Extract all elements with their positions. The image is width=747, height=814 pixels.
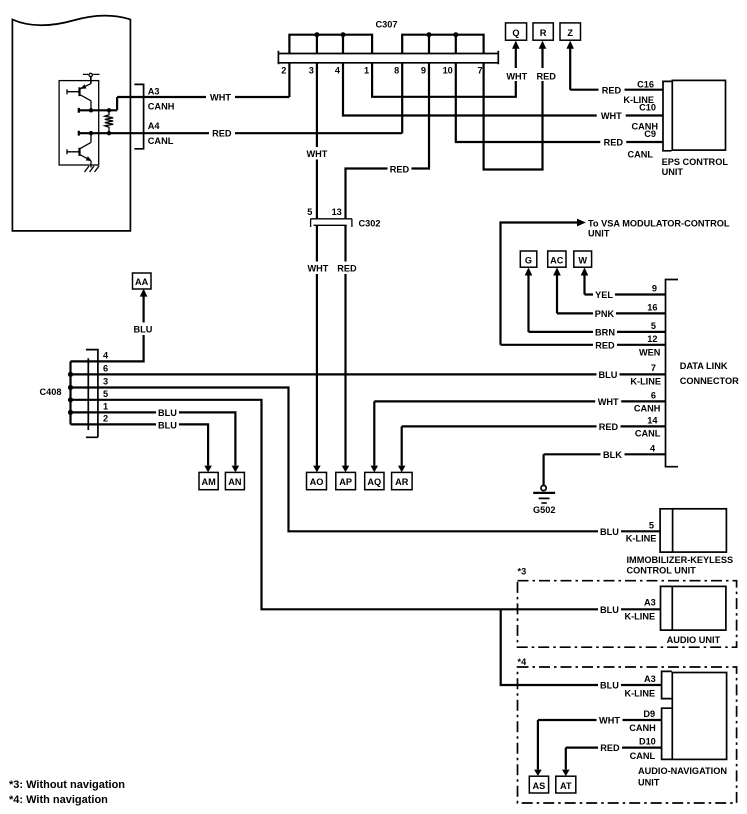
svg-text:5: 5 [649,520,654,530]
svg-text:RED: RED [604,138,624,148]
svg-text:5: 5 [307,207,312,217]
svg-text:BLU: BLU [134,325,153,335]
arrow to AQ [371,466,379,473]
label WHT CANH [595,395,621,407]
wire WHT nav CANH to AS [538,720,662,770]
pin numbers C408 [103,350,109,423]
connector C408 bar [86,349,98,438]
svg-text:C408: C408 [40,387,62,397]
svg-text:WHT: WHT [601,111,622,121]
label RED on EPS K-LINE wire [599,84,625,97]
label BLU nav K-LINE wire [598,679,621,691]
svg-text:*3: *3 [518,567,527,577]
label RED on A4 wire [209,127,235,139]
connector bracket audio [661,586,672,630]
arrow to W [581,267,589,275]
connector G box [520,251,537,267]
svg-text:BLU: BLU [599,370,618,380]
svg-text:2: 2 [281,66,286,76]
svg-text:A4: A4 [148,121,161,131]
svg-text:DATA LINK: DATA LINK [680,361,728,371]
svg-text:5: 5 [103,389,108,399]
svg-text:UNIT: UNIT [662,167,684,177]
connector AT box [556,776,576,793]
node dots [89,108,111,135]
svg-text:9: 9 [421,66,426,76]
arrow to R [539,41,547,49]
svg-text:BLU: BLU [600,527,619,537]
svg-text:C9: C9 [644,129,656,139]
svg-text:BLU: BLU [600,681,619,691]
label WHT under Q [503,68,529,82]
immobilizer-keyless control unit box [673,509,727,552]
junction dots bridge left [314,32,345,37]
svg-text:RED: RED [600,743,620,753]
svg-text:1: 1 [103,401,108,411]
svg-text:AS: AS [533,781,546,791]
label BRN [593,326,617,338]
wire C307 pin3 WHT vertical [316,63,318,466]
wire PNK DLC pin16 to AC [557,275,666,313]
svg-text:AUDIO-NAVIGATION: AUDIO-NAVIGATION [638,766,727,776]
with-navigation dashed box [518,667,737,803]
svg-text:Z: Z [567,28,573,38]
label BLU on AA wire [132,323,155,336]
svg-text:CANH: CANH [634,403,661,413]
svg-text:RED: RED [536,72,556,82]
svg-text:K-LINE: K-LINE [630,377,661,387]
connector AC box [548,251,566,267]
arrow to AR [398,466,406,473]
svg-text:8: 8 [394,66,399,76]
svg-text:A3: A3 [148,87,160,97]
label RED on EPS CANL wire [600,136,626,149]
wire A3 WHT [117,96,289,98]
wire C307 pin8 [401,63,403,133]
arrow to AT [562,770,570,776]
arrow to AP [342,466,350,473]
svg-text:G502: G502 [533,505,555,515]
svg-text:PNK: PNK [595,309,615,319]
svg-text:AN: AN [228,477,242,487]
wire Z to EPS K-LINE [570,48,663,90]
wire branch to audio-navigation K-LINE [501,609,662,685]
connector bracket nav D9-D10 [662,708,672,759]
EPS control unit box [672,80,725,150]
connector W box [574,251,592,267]
svg-text:C10: C10 [639,103,656,113]
svg-text:AQ: AQ [367,477,381,487]
connector bracket immobilizer [660,509,672,552]
connector C408 inner line [87,358,89,430]
label BLU audio wire [598,603,621,615]
svg-text:C307: C307 [376,20,398,30]
wire BLK DLC pin4 to ground [544,454,666,485]
arrow to Z [566,41,574,49]
audio unit box [672,586,726,630]
resistor [105,110,113,133]
wire RED nav CANL to AT [566,748,662,770]
connector AA box [133,273,152,289]
svg-text:A3: A3 [644,597,656,607]
svg-text:*3: Without navigation: *3: Without navigation [9,779,125,791]
svg-text:CONNECTOR: CONNECTOR [680,376,739,386]
audio-navigation unit box [672,673,726,760]
label BLU on DLC K-LINE wire [597,368,620,380]
svg-text:AM: AM [201,477,216,487]
label RED nav [598,742,622,754]
label WHT nav [597,714,623,726]
svg-text:14: 14 [647,415,658,425]
wire C408 pin1 BLU to AN [71,412,236,465]
connector bracket nav A3 [662,671,672,698]
CAN driver IC box [59,81,99,165]
svg-text:*4: *4 [518,657,528,667]
ground G502 [533,485,555,515]
svg-text:*4: With navigation: *4: With navigation [9,794,108,806]
label YEL [593,289,615,301]
supply symbol [83,73,99,83]
svg-text:10: 10 [443,66,453,76]
connector AS box [529,776,548,793]
svg-text:CANH: CANH [148,102,175,112]
svg-text:BLK: BLK [603,450,622,460]
connector bracket EPS [663,81,672,150]
svg-text:EPS CONTROL: EPS CONTROL [662,157,729,167]
svg-text:AP: AP [339,477,352,487]
svg-text:AA: AA [135,277,149,287]
svg-text:RED: RED [212,129,232,139]
svg-text:WEN: WEN [639,347,661,357]
label BLU on pin2 wire [156,418,179,431]
connector C302 [311,219,352,227]
svg-text:WHT: WHT [599,716,620,726]
arrow to AS [534,770,542,776]
label WHT on pin3 wire [304,147,330,160]
wire to VSA modulator-control unit [501,223,578,345]
svg-text:CANL: CANL [627,150,653,160]
svg-text:BLU: BLU [158,420,177,430]
svg-text:CANL: CANL [148,136,174,146]
wire C408 pin3 BLU to immobilizer [71,388,661,532]
svg-text:D10: D10 [639,737,656,747]
svg-text:RED: RED [602,85,622,95]
control module box [12,16,130,231]
connector AM box [199,472,218,489]
svg-text:Q: Q [512,28,519,38]
wire C307 pin4 to EPS CANH [343,63,663,116]
svg-text:7: 7 [651,363,656,373]
svg-text:G: G [525,255,532,265]
wire C408 pin5 BLU to audio [71,400,661,610]
svg-text:WHT: WHT [306,149,327,159]
svg-text:12: 12 [647,334,657,344]
wire RED DLC pin12 WEN [501,344,666,346]
wire C307 pin10 to EPS CANL [456,63,663,142]
connector AQ box [365,472,384,489]
svg-text:WHT: WHT [506,72,527,82]
label BLU immobilizer wire [598,525,621,537]
junction dots C408 [68,372,73,415]
svg-text:WHT: WHT [598,397,619,407]
junction dots bridge right [427,32,459,37]
wire RED DLC pin14 CANL to AR [402,426,666,465]
connector R box [533,23,553,40]
label BLU on pin1 wire [156,406,179,419]
svg-text:RED: RED [599,422,619,432]
svg-text:D9: D9 [643,709,655,719]
label RED CANL [597,420,621,432]
svg-text:RED: RED [595,340,615,350]
label RED on pin9 wire [388,162,412,175]
connector AN box [225,472,244,489]
svg-text:BRN: BRN [595,327,615,337]
svg-text:AC: AC [550,255,564,265]
wire A4 RED [79,131,402,136]
connector C307 bar [278,51,498,65]
svg-text:3: 3 [309,66,314,76]
svg-text:13: 13 [332,207,342,217]
arrow to AA [140,289,148,297]
svg-text:C302: C302 [359,219,381,229]
svg-text:4: 4 [650,443,656,453]
svg-text:CANL: CANL [635,428,661,438]
wire C307 pin7 to R [484,48,543,170]
C408 joint bus [69,361,71,424]
svg-text:R: R [540,28,547,38]
pin numbers C307 [281,66,482,76]
svg-text:2: 2 [103,413,108,423]
svg-text:AO: AO [310,477,324,487]
svg-text:RED: RED [337,264,357,274]
svg-text:RED: RED [390,164,410,174]
svg-text:BLU: BLU [158,408,177,418]
wire C307 pin2 [288,63,290,97]
svg-text:K-LINE: K-LINE [624,612,655,622]
svg-text:AR: AR [395,477,409,487]
svg-text:C16: C16 [637,80,654,90]
label WHT on EPS CANH wire [597,109,626,122]
svg-text:K-LINE: K-LINE [624,688,655,698]
transistor Q-top [67,76,91,110]
svg-text:AUDIO UNIT: AUDIO UNIT [667,635,721,645]
svg-text:16: 16 [647,302,657,312]
DLC net names [630,347,661,438]
wire C307 pin9 to C302 pin13 [346,63,430,466]
svg-text:AT: AT [560,781,572,791]
label WHT on A3 wire [206,91,235,103]
chassis ground [85,166,100,172]
svg-text:3: 3 [103,377,108,387]
connector DATA LINK bracket [666,280,679,467]
svg-text:YEL: YEL [595,290,613,300]
svg-text:6: 6 [651,390,656,400]
svg-text:K-LINE: K-LINE [626,533,657,543]
label PNK [593,307,616,319]
wire C408 pin4 to AA [71,297,144,362]
arrow to VSA [577,219,586,227]
svg-text:4: 4 [335,66,341,76]
label WHT below C302 [305,262,331,275]
wire BRN DLC pin5 to G [529,275,666,332]
connector Z box [560,23,581,40]
arrow to AO [313,466,321,473]
label RED below C302 [335,262,359,275]
svg-text:WHT: WHT [307,264,328,274]
connector A3/A4 bracket [134,84,143,148]
wire C408 pin2 BLU to AM [71,424,209,465]
bridge joint pins 8-9-10-7 [402,35,483,55]
svg-text:UNIT: UNIT [588,229,610,239]
without-navigation dashed box [518,581,737,648]
connector AP box [336,472,356,489]
label RED WEN [593,339,617,351]
label RED under R [532,68,556,82]
arrow to AM [204,466,212,473]
svg-text:WHT: WHT [210,93,231,103]
DLC pin numbers [647,284,658,454]
arrow to AC [553,267,561,275]
connector AR box [392,472,413,489]
connector Q box [506,23,527,40]
arrow to AN [232,466,240,473]
svg-text:BLU: BLU [600,605,619,615]
svg-text:5: 5 [651,321,656,331]
bridge joint pins 2-3-4-1 [289,35,372,55]
node CANH internal [79,97,117,113]
wire C307 pin1 to Q [372,48,516,97]
connector AO box [307,472,327,489]
svg-text:6: 6 [103,363,108,373]
svg-text:To VSA MODULATOR-CONTROL: To VSA MODULATOR-CONTROL [588,218,730,228]
transistor Q-bottom [67,133,92,167]
svg-text:A3: A3 [644,674,656,684]
svg-text:CONTROL UNIT: CONTROL UNIT [627,566,697,576]
label BLK [601,448,625,460]
svg-text:UNIT: UNIT [638,777,660,787]
svg-text:W: W [578,255,587,265]
svg-text:4: 4 [103,350,109,360]
svg-text:1: 1 [364,66,369,76]
svg-text:9: 9 [652,284,657,294]
svg-text:CANH: CANH [629,723,656,733]
svg-text:7: 7 [477,66,482,76]
svg-text:IMMOBILIZER-KEYLESS: IMMOBILIZER-KEYLESS [627,555,734,565]
arrow to Q [512,41,520,49]
wire C408 pin6 BLU to DLC K-LINE [71,373,666,375]
wire WHT DLC pin6 CANH to AQ [374,401,665,465]
wire YEL DLC pin9 to W [585,275,666,295]
arrow to G [525,267,533,275]
svg-text:CANL: CANL [630,751,656,761]
